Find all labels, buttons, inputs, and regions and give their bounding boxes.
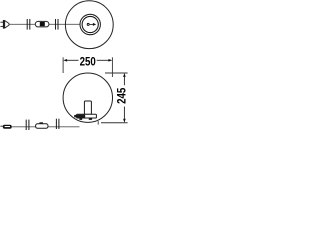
inline switch body (side view) xyxy=(36,124,48,129)
cord break symbol 1 (top view) bar a xyxy=(26,19,28,30)
cord end dot (top view) xyxy=(87,23,90,26)
dimension 250: right extension line xyxy=(111,57,113,77)
cord break symbol 2 (bottom) bar b xyxy=(58,119,60,129)
dimension 245: up arrow xyxy=(123,73,126,77)
plug (top view) prong upper xyxy=(0,21,3,23)
cord break symbol 2 (bottom) bar a xyxy=(55,119,57,129)
svg-text:250: 250 xyxy=(80,56,96,68)
dimension 250: right arrow xyxy=(108,59,112,62)
arrow to ring (top view) xyxy=(90,23,93,25)
inline switch body (top view) xyxy=(35,21,49,27)
cord break symbol 2 (top view) bar b xyxy=(57,19,59,30)
dimension 245: upper dash xyxy=(123,77,125,86)
base plate xyxy=(77,114,97,118)
inline switch slider button (top view) xyxy=(40,22,45,26)
base foot right xyxy=(89,118,92,120)
cord break symbol 1 (bottom) bar a xyxy=(25,120,27,130)
dimension 245: down arrow xyxy=(123,119,126,123)
cord break symbol 2 (top view) bar a xyxy=(55,19,57,30)
lamp globe (front view circle) xyxy=(63,73,112,122)
inline switch (side view) button bump xyxy=(39,122,43,124)
dimension 245: top extension line xyxy=(105,72,128,74)
cord entry connector at base left xyxy=(74,115,77,117)
globe opening inner ring (top view) xyxy=(82,16,98,32)
plug (side view) slit xyxy=(5,126,10,127)
plug (top view) body bar xyxy=(3,20,5,29)
plug (side view) prong line xyxy=(0,125,3,127)
plug (top view) taper cone xyxy=(5,21,9,29)
dimension 245: bottom extension tick at globe tangent xyxy=(97,121,99,124)
cord break symbol 1 (top view) bar b xyxy=(29,19,31,30)
base plate dark left section xyxy=(77,115,85,118)
dimension 250: left arrow xyxy=(63,59,67,62)
dimension 250: left dash xyxy=(67,59,79,61)
dimension 250: right dash xyxy=(97,59,109,61)
cord break symbol 1 (bottom) bar b xyxy=(28,120,30,130)
plug (top view) prong lower xyxy=(0,25,3,27)
globe opening outer ring (top view) xyxy=(80,14,100,34)
dimension 245: lower dash xyxy=(123,107,125,119)
dimension 245: bottom extension line xyxy=(101,122,128,124)
base foot left xyxy=(79,118,82,120)
dimension 250: left extension line xyxy=(62,57,64,73)
plug (side view) body xyxy=(3,125,12,129)
wire: top cord line xyxy=(9,23,87,25)
wire: bottom cord line xyxy=(11,126,80,128)
svg-text:245: 245 xyxy=(117,87,129,104)
lamp neck / socket housing xyxy=(84,101,91,114)
lamp globe outline (top view big circle) xyxy=(65,1,113,49)
